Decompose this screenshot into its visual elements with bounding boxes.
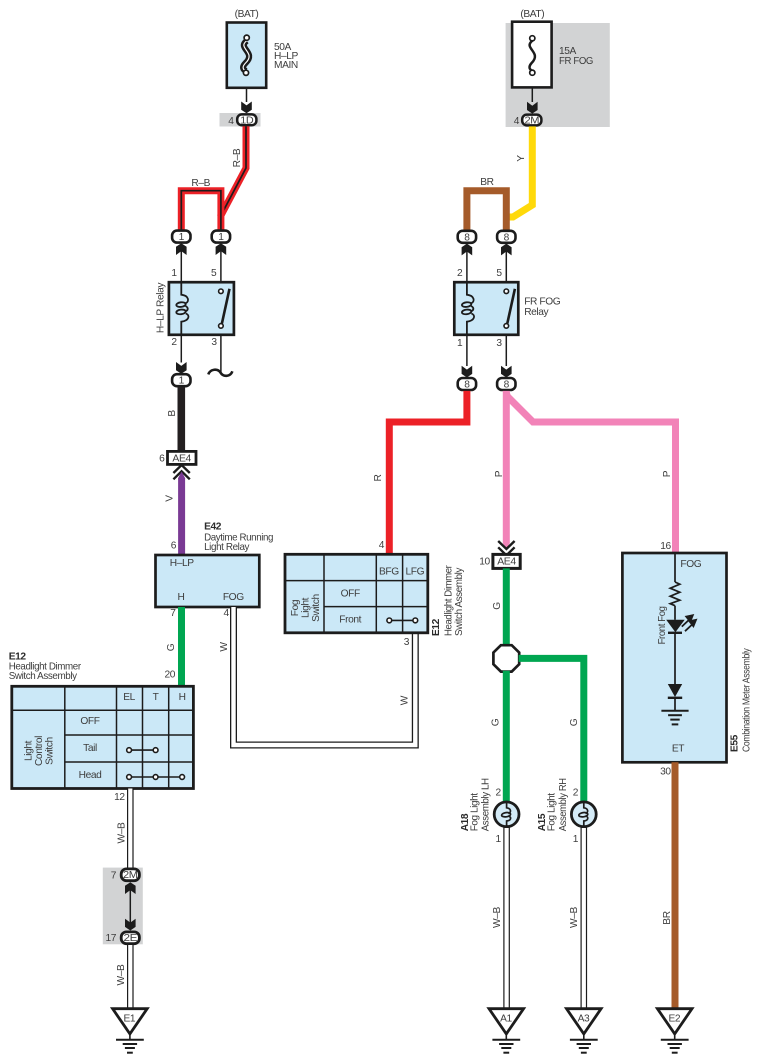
connector 4 1D	[220, 113, 261, 127]
svg-text:G: G	[490, 718, 501, 726]
svg-text:Assembly LH: Assembly LH	[481, 778, 492, 831]
svg-text:2: 2	[457, 268, 463, 279]
arrow down into oval 1	[176, 362, 187, 374]
double chevron down into AE4	[498, 541, 514, 555]
svg-text:EL: EL	[123, 692, 135, 703]
svg-text:Relay: Relay	[524, 307, 549, 318]
wire fuse to 1D	[246, 88, 248, 102]
wire to internal ground	[674, 698, 676, 711]
svg-text:12: 12	[114, 792, 125, 803]
svg-text:Front: Front	[339, 614, 361, 625]
svg-text:Fog Light: Fog Light	[469, 793, 480, 832]
wire W-B from E12 to 2M	[127, 789, 134, 869]
svg-text:E42: E42	[204, 521, 222, 532]
wire P pink branch to E55	[506, 393, 675, 553]
double chevron up into AE4	[173, 465, 189, 479]
E12 right table (fog light switch)	[285, 554, 428, 633]
svg-text:BFG: BFG	[379, 567, 399, 578]
relay E42 box	[156, 555, 260, 607]
open-end tilde on pin 3	[208, 370, 232, 376]
wire BR brown loop to terminals	[467, 191, 506, 231]
svg-text:A1: A1	[500, 1013, 512, 1024]
wire relay pin2 down	[180, 335, 182, 363]
wire to relay pin 5	[505, 248, 507, 283]
wire between 2M and 2E	[129, 886, 131, 926]
wire W-B from A18 to A1	[503, 827, 510, 1009]
svg-text:Switch: Switch	[311, 594, 322, 622]
svg-text:3: 3	[496, 338, 502, 349]
svg-text:FOG: FOG	[680, 559, 701, 570]
terminal oval 1 below relay	[172, 374, 190, 386]
svg-text:2M: 2M	[123, 870, 138, 881]
svg-text:4: 4	[514, 116, 520, 127]
terminal oval 8 (left top)	[458, 231, 476, 243]
svg-text:17: 17	[105, 933, 116, 944]
svg-text:E1: E1	[123, 1013, 135, 1024]
svg-text:W: W	[219, 642, 230, 652]
internal ground	[661, 711, 688, 725]
ground A3	[567, 1009, 602, 1053]
svg-text:AE4: AE4	[497, 557, 516, 568]
svg-text:2E: 2E	[124, 933, 138, 944]
wire G green E42 to E12	[178, 607, 185, 686]
wire to relay pin 2	[466, 248, 468, 283]
svg-text:Combination Meter Assembly: Combination Meter Assembly	[742, 647, 753, 752]
svg-text:1D: 1D	[240, 115, 253, 126]
wire R-B from 1D down/diagonal to terminals	[181, 126, 246, 230]
svg-text:H–LP: H–LP	[170, 558, 194, 569]
svg-text:A3: A3	[578, 1013, 590, 1024]
svg-text:8: 8	[464, 380, 470, 391]
svg-text:Head: Head	[79, 770, 102, 781]
svg-text:R–B: R–B	[191, 178, 210, 189]
svg-text:1: 1	[573, 834, 579, 845]
svg-text:W–B: W–B	[492, 906, 503, 927]
wire	[674, 606, 676, 620]
svg-text:W–B: W–B	[116, 964, 127, 985]
svg-text:20: 20	[164, 670, 175, 681]
svg-text:MAIN: MAIN	[274, 60, 298, 71]
svg-text:3: 3	[404, 637, 410, 648]
LED front fog indicator	[666, 620, 685, 632]
svg-text:Control: Control	[34, 736, 45, 766]
arrow down into oval 8 right	[501, 366, 512, 378]
wire G green AE4 to octagon	[503, 568, 510, 646]
svg-text:1: 1	[457, 338, 463, 349]
ground E1	[113, 1009, 148, 1053]
gray junction block 2M/2E	[103, 868, 143, 945]
fog light bulb A18	[494, 802, 519, 827]
svg-text:4: 4	[224, 608, 230, 619]
wire G branch to A15	[519, 658, 584, 803]
svg-text:LFG: LFG	[405, 567, 424, 578]
terminal oval 1 (left)	[172, 231, 190, 243]
svg-text:P: P	[662, 470, 673, 477]
wire Y yellow	[506, 126, 532, 217]
svg-text:T: T	[153, 692, 159, 703]
relay switch contact	[222, 289, 230, 324]
wire W white: E42 pin4 down, right, up to E12right pin3	[234, 607, 416, 745]
relay switch contact	[507, 289, 515, 324]
svg-text:1: 1	[179, 232, 185, 243]
svg-text:G: G	[492, 602, 503, 610]
svg-text:Headlight Dimmer: Headlight Dimmer	[443, 565, 454, 636]
arrow down into 2E	[125, 919, 136, 931]
arrow up into left oval 1	[176, 243, 187, 255]
svg-text:4: 4	[379, 540, 385, 551]
switch contact Front row	[389, 619, 415, 621]
fuse 50A H-LP MAIN box	[227, 23, 266, 88]
wire R red to E12 right pin 4	[389, 391, 467, 554]
pink wire tip	[503, 543, 510, 550]
svg-text:Light: Light	[24, 740, 35, 761]
svg-text:Tail: Tail	[83, 743, 97, 754]
svg-text:BR: BR	[662, 911, 673, 924]
wire inside E55 top	[674, 554, 676, 582]
svg-text:W: W	[400, 695, 411, 705]
svg-text:2: 2	[573, 788, 579, 799]
svg-text:W–B: W–B	[117, 822, 128, 843]
svg-text:G: G	[166, 643, 177, 651]
terminal oval 8 (left bottom)	[458, 378, 476, 390]
svg-text:Switch: Switch	[45, 737, 56, 765]
gray fuse block FR FOG	[506, 23, 610, 127]
arrow into 2M	[527, 102, 538, 114]
svg-text:1: 1	[179, 376, 185, 387]
wire fuse to 2M	[531, 87, 533, 102]
svg-text:OFF: OFF	[80, 716, 99, 727]
svg-text:16: 16	[660, 541, 671, 552]
fuse 15A FR FOG box	[512, 22, 552, 88]
E55 combination meter box	[622, 553, 726, 762]
svg-text:AE4: AE4	[172, 453, 191, 464]
arrow up into left oval 8	[462, 244, 473, 256]
wire BR brown to E2	[672, 762, 679, 1008]
svg-text:Fog: Fog	[290, 599, 301, 616]
svg-text:FOG: FOG	[223, 592, 244, 603]
svg-text:1: 1	[496, 834, 502, 845]
fog light bulb A15	[571, 802, 596, 827]
svg-text:V: V	[165, 495, 176, 502]
fusible link symbol	[243, 35, 249, 75]
svg-text:Y: Y	[516, 155, 527, 162]
wire to relay pin 5	[220, 247, 222, 282]
svg-text:8: 8	[464, 232, 470, 243]
svg-text:2M: 2M	[525, 115, 540, 126]
svg-text:1: 1	[218, 232, 224, 243]
svg-text:7: 7	[170, 608, 176, 619]
switch contact Tail row	[129, 749, 156, 751]
terminal oval 8 (right bottom)	[497, 378, 515, 390]
wire relay pin3 down	[220, 335, 222, 372]
svg-text:P: P	[494, 470, 505, 477]
diode	[668, 684, 682, 697]
wire G to A18	[503, 671, 510, 803]
svg-text:7: 7	[111, 871, 117, 882]
arrow up into 2M	[125, 882, 136, 894]
svg-text:1: 1	[171, 268, 177, 279]
svg-text:8: 8	[504, 232, 510, 243]
svg-text:FR FOG: FR FOG	[559, 56, 593, 67]
svg-text:6: 6	[159, 454, 165, 465]
terminal oval 1 (right)	[212, 231, 230, 243]
relay coil	[462, 282, 474, 335]
svg-text:30: 30	[660, 767, 671, 778]
wire W-B from A15 to A3	[580, 827, 587, 1009]
wire relay pin3 down	[505, 335, 507, 366]
svg-text:H: H	[178, 592, 185, 603]
svg-text:6: 6	[171, 540, 177, 551]
svg-text:BR: BR	[480, 177, 493, 188]
arrow into 1D	[241, 102, 252, 114]
svg-text:2: 2	[496, 788, 502, 799]
svg-text:2: 2	[171, 337, 177, 348]
svg-text:5: 5	[211, 268, 217, 279]
ground E2	[657, 1009, 692, 1053]
svg-text:(BAT): (BAT)	[520, 9, 544, 20]
wire V (violet)	[178, 472, 185, 479]
svg-text:4: 4	[228, 116, 234, 127]
relay coil	[176, 282, 188, 335]
fuse symbol	[530, 36, 535, 76]
svg-text:E12: E12	[431, 618, 442, 636]
E12 left table	[12, 686, 194, 788]
svg-text:10: 10	[479, 556, 490, 567]
svg-text:5: 5	[496, 268, 502, 279]
wire B (black)	[178, 387, 186, 452]
svg-text:Light Relay: Light Relay	[204, 542, 250, 553]
svg-text:FR FOG: FR FOG	[524, 297, 561, 308]
svg-text:Fog Light: Fog Light	[547, 793, 558, 832]
arrow up into right oval 1	[216, 243, 227, 255]
FR FOG relay box	[454, 282, 518, 335]
H-LP relay box	[169, 282, 234, 335]
svg-text:B: B	[167, 410, 178, 417]
wire relay pin1 down	[466, 335, 468, 366]
svg-text:Assembly RH: Assembly RH	[558, 778, 569, 831]
switch contact Head row	[129, 776, 182, 778]
svg-text:R–B: R–B	[232, 148, 243, 167]
svg-text:W–B: W–B	[569, 906, 580, 927]
arrow down into oval 8 left	[462, 366, 473, 378]
svg-text:8: 8	[504, 380, 510, 391]
svg-text:G: G	[569, 718, 580, 726]
svg-text:OFF: OFF	[341, 589, 360, 600]
svg-text:H: H	[179, 692, 186, 703]
wire to relay pin 1	[180, 247, 182, 282]
svg-text:Front Fog: Front Fog	[657, 606, 668, 645]
resistor	[670, 582, 680, 606]
svg-text:E2: E2	[668, 1013, 680, 1024]
svg-text:(BAT): (BAT)	[235, 9, 259, 20]
wire	[674, 633, 676, 684]
svg-text:H–LP Relay: H–LP Relay	[156, 282, 167, 333]
ground A1	[489, 1009, 524, 1053]
svg-text:Switch Assembly: Switch Assembly	[454, 567, 465, 636]
svg-text:3: 3	[211, 337, 217, 348]
splice octagon	[493, 645, 519, 671]
arrow up into right oval 8	[501, 244, 512, 256]
terminal oval 8 (right top)	[497, 231, 515, 243]
LED arrows	[682, 615, 696, 631]
wire W-B from 2E to E1	[127, 945, 134, 1009]
svg-text:ET: ET	[672, 744, 684, 755]
svg-text:Switch Assembly: Switch Assembly	[9, 671, 78, 682]
svg-text:Light: Light	[300, 597, 311, 618]
svg-text:R: R	[373, 474, 384, 481]
wire P pink down to AE4	[503, 391, 510, 544]
svg-text:E55: E55	[729, 734, 740, 752]
